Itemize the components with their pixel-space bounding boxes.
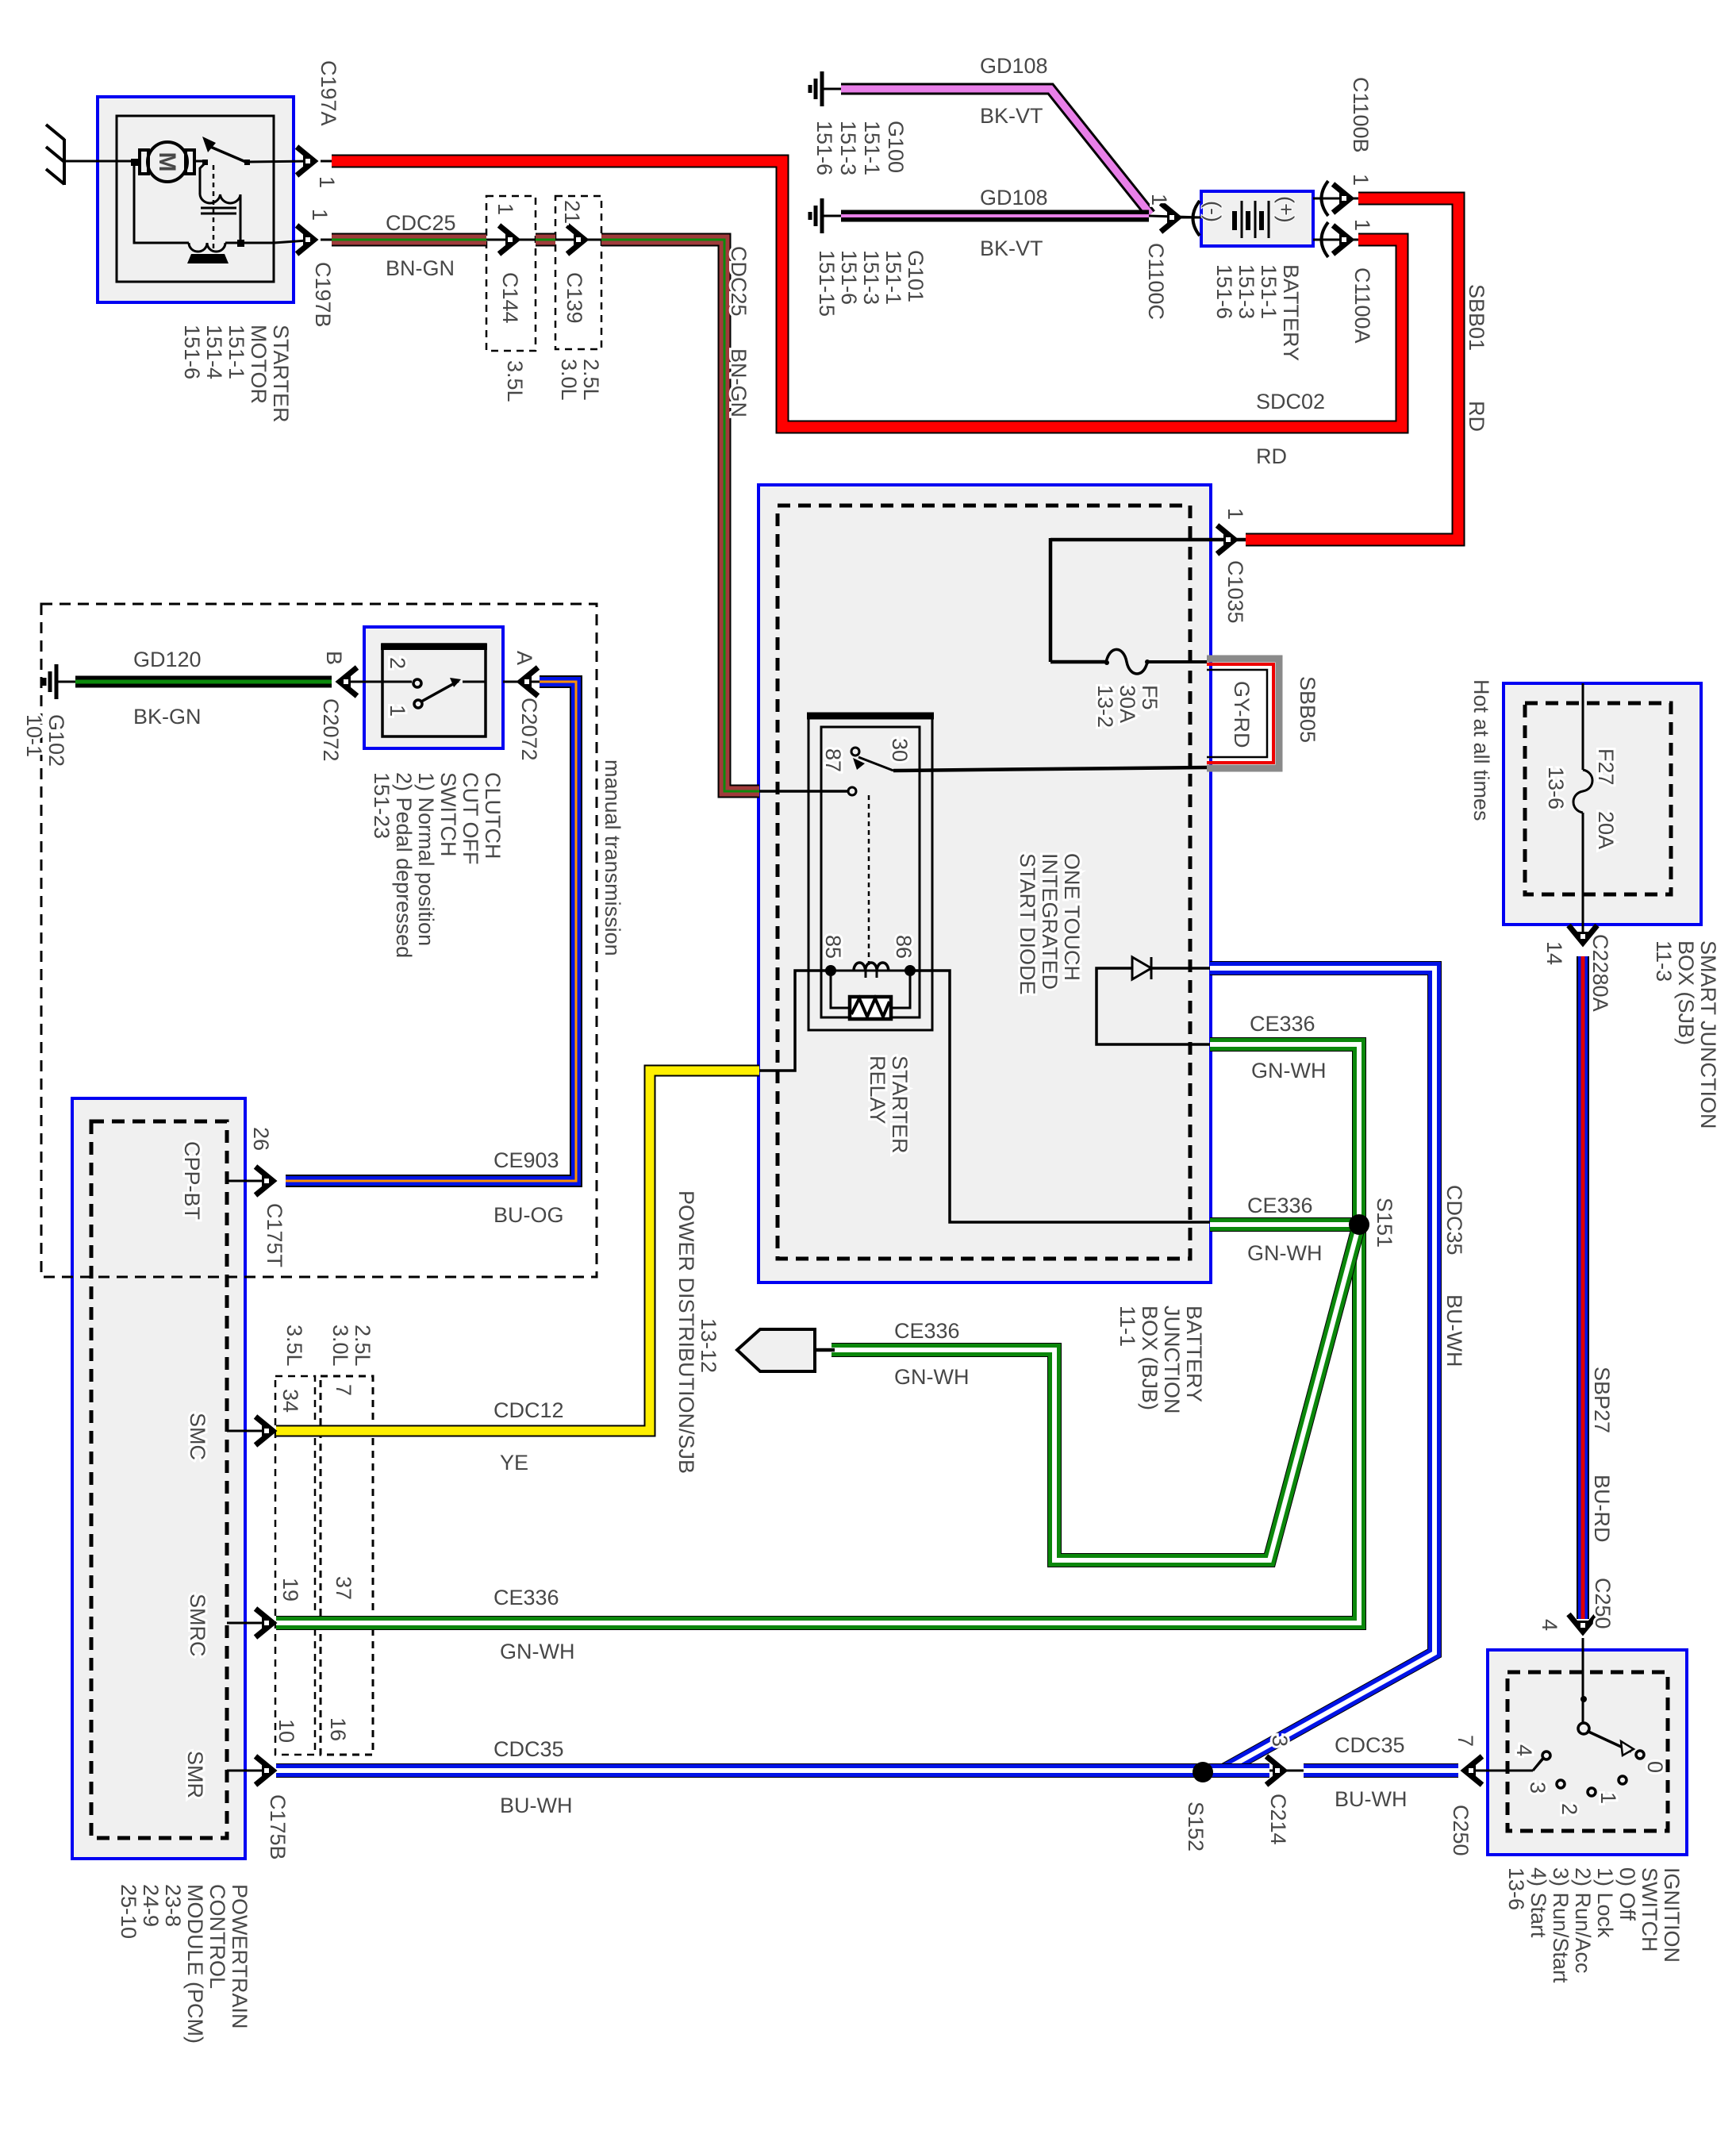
svg-text:C2072: C2072	[319, 698, 343, 762]
svg-text:1: 1	[1147, 194, 1171, 206]
svg-text:7: 7	[1454, 1735, 1477, 1747]
svg-text:SBB01: SBB01	[1465, 284, 1488, 351]
svg-text:13-12: 13-12	[697, 1318, 720, 1373]
svg-text:2.5L: 2.5L	[351, 1325, 374, 1367]
svg-text:GD108: GD108	[980, 186, 1048, 210]
svg-text:BU-OG: BU-OG	[494, 1203, 564, 1227]
svg-text:BK-VT: BK-VT	[980, 236, 1043, 260]
svg-text:CDC35: CDC35	[1335, 1733, 1405, 1757]
svg-text:3: 3	[1526, 1782, 1550, 1794]
svg-text:C197A: C197A	[317, 60, 340, 126]
svg-text:85: 85	[821, 935, 845, 959]
svg-text:C214: C214	[1266, 1794, 1290, 1845]
svg-text:3.5L: 3.5L	[503, 360, 527, 402]
svg-text:SBB05: SBB05	[1296, 676, 1319, 743]
svg-text:YE: YE	[500, 1451, 528, 1475]
svg-text:B: B	[322, 651, 346, 665]
svg-text:4: 4	[1512, 1744, 1536, 1756]
svg-text:C250: C250	[1449, 1805, 1473, 1856]
svg-text:SBP27: SBP27	[1590, 1367, 1614, 1433]
svg-text:2: 2	[386, 657, 409, 669]
svg-text:BN-GN: BN-GN	[727, 348, 751, 417]
svg-text:87: 87	[821, 748, 845, 772]
svg-text:21: 21	[560, 200, 584, 224]
svg-text:SMC: SMC	[186, 1413, 209, 1460]
svg-text:C1100C: C1100C	[1144, 243, 1168, 320]
svg-text:30: 30	[888, 738, 912, 762]
svg-text:BU-WH: BU-WH	[1442, 1294, 1466, 1367]
svg-text:13-6: 13-6	[1544, 767, 1568, 809]
svg-text:GY-RD: GY-RD	[1230, 681, 1254, 748]
svg-text:0: 0	[1643, 1761, 1667, 1773]
svg-text:2: 2	[1557, 1803, 1581, 1815]
svg-text:16: 16	[326, 1717, 350, 1741]
svg-text:SDC02: SDC02	[1256, 390, 1325, 413]
svg-text:CDC35: CDC35	[1442, 1185, 1466, 1255]
svg-text:S151: S151	[1373, 1198, 1396, 1248]
svg-text:manual transmission: manual transmission	[601, 759, 624, 956]
svg-text:CPP-BT: CPP-BT	[180, 1141, 204, 1220]
svg-text:Hot at all times: Hot at all times	[1469, 679, 1493, 821]
svg-text:G100151-1151-3151-6: G100151-1151-3151-6	[812, 121, 908, 175]
svg-text:C1100B: C1100B	[1349, 77, 1373, 153]
svg-text:CDC25: CDC25	[386, 211, 456, 235]
svg-text:GN-WH: GN-WH	[500, 1640, 574, 1663]
svg-text:C175B: C175B	[266, 1794, 290, 1860]
svg-text:M: M	[154, 152, 180, 172]
svg-text:POWER DISTRIBUTION/SJB: POWER DISTRIBUTION/SJB	[674, 1190, 698, 1474]
svg-text:CE336: CE336	[1247, 1194, 1313, 1217]
svg-text:19: 19	[278, 1578, 302, 1602]
svg-text:14: 14	[1542, 941, 1566, 965]
svg-text:GN-WH: GN-WH	[1247, 1241, 1322, 1265]
svg-text:F27: F27	[1594, 748, 1618, 786]
svg-text:(-): (-)	[1201, 201, 1225, 222]
svg-text:GD120: GD120	[133, 648, 202, 671]
svg-text:C1100A: C1100A	[1350, 267, 1374, 344]
svg-text:CE336: CE336	[494, 1586, 559, 1609]
svg-text:86: 86	[892, 935, 916, 959]
svg-text:CE336: CE336	[1250, 1012, 1315, 1036]
svg-text:2.5L3.0L: 2.5L3.0L	[557, 359, 603, 401]
svg-text:1: 1	[1596, 1792, 1620, 1804]
svg-text:10: 10	[275, 1719, 298, 1743]
svg-text:1: 1	[308, 209, 332, 221]
svg-text:1: 1	[315, 176, 339, 188]
svg-text:26: 26	[249, 1127, 273, 1151]
svg-text:C139: C139	[563, 272, 586, 324]
svg-text:SMR: SMR	[183, 1751, 207, 1798]
svg-text:BK-VT: BK-VT	[980, 104, 1043, 128]
svg-text:C197B: C197B	[311, 262, 335, 328]
svg-text:BU-RD: BU-RD	[1590, 1475, 1614, 1543]
svg-text:SMRC: SMRC	[186, 1594, 209, 1657]
svg-text:20A: 20A	[1594, 811, 1618, 849]
svg-text:C144: C144	[498, 272, 522, 324]
svg-text:1: 1	[1349, 174, 1373, 186]
svg-text:GN-WH: GN-WH	[1251, 1059, 1326, 1082]
svg-text:3.0L: 3.0L	[328, 1325, 352, 1367]
svg-text:BN-GN: BN-GN	[386, 256, 455, 280]
svg-text:CDC35: CDC35	[494, 1737, 564, 1761]
svg-text:(+): (+)	[1274, 196, 1298, 223]
svg-text:C2072: C2072	[517, 698, 541, 761]
svg-text:RD: RD	[1256, 444, 1287, 468]
svg-text:34: 34	[278, 1389, 302, 1413]
svg-text:7: 7	[332, 1384, 355, 1396]
svg-text:3: 3	[1268, 1735, 1292, 1747]
svg-text:ONE TOUCHINTEGRATEDSTART DIODE: ONE TOUCHINTEGRATEDSTART DIODE	[1016, 853, 1084, 995]
svg-text:GD108: GD108	[980, 54, 1048, 78]
svg-text:1: 1	[1350, 219, 1374, 231]
svg-text:CDC25: CDC25	[727, 246, 751, 317]
svg-text:BU-WH: BU-WH	[500, 1794, 572, 1817]
svg-text:C250: C250	[1591, 1578, 1615, 1629]
svg-text:GN-WH: GN-WH	[894, 1365, 969, 1389]
svg-text:CE336: CE336	[894, 1319, 960, 1343]
svg-text:CDC12: CDC12	[494, 1398, 564, 1422]
svg-text:RD: RD	[1465, 401, 1488, 432]
svg-text:1: 1	[494, 203, 517, 215]
svg-text:A: A	[513, 651, 536, 665]
svg-text:C1035: C1035	[1223, 560, 1247, 624]
svg-text:4: 4	[1538, 1619, 1561, 1631]
svg-text:C2280A: C2280A	[1588, 934, 1612, 1012]
svg-text:CE903: CE903	[494, 1148, 559, 1172]
svg-text:1: 1	[1223, 508, 1247, 520]
svg-text:BU-WH: BU-WH	[1335, 1787, 1407, 1811]
svg-text:37: 37	[332, 1576, 355, 1600]
svg-text:S152: S152	[1184, 1802, 1208, 1852]
svg-text:BK-GN: BK-GN	[133, 705, 202, 729]
svg-text:1: 1	[386, 705, 409, 717]
svg-text:3.5L: 3.5L	[282, 1325, 306, 1367]
svg-text:C175T: C175T	[263, 1203, 286, 1267]
